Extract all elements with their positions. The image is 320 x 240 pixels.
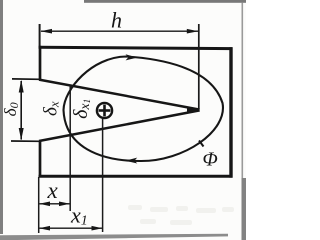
extension line x1 (below circle) — [102, 119, 104, 232]
svg-text:δx: δx — [41, 101, 62, 116]
scan border right thin — [242, 3, 244, 179]
wedge tip fill — [187, 108, 200, 113]
svg-text:Φ: Φ — [203, 149, 218, 171]
wedge gap bottom slant — [39, 110, 200, 141]
scan border top — [84, 0, 246, 3]
coil conductor circled plus — [97, 103, 112, 118]
x arrow left — [39, 202, 50, 207]
delta0 arrow head up — [19, 80, 24, 93]
core rectangle top edge — [39, 47, 233, 48]
flux arrow top (points right) — [126, 54, 138, 60]
delta0 arrow head down — [19, 128, 24, 140]
delta0 tick top — [12, 78, 40, 80]
label delta0 (rotated) — [1, 102, 21, 116]
delta0 tick bottom — [11, 140, 40, 142]
ghost bleed-through marks — [128, 205, 234, 225]
extension line left (below rectangle corner) — [38, 177, 40, 233]
core rectangle right edge — [229, 47, 232, 177]
svg-text:δ0: δ0 — [1, 102, 21, 116]
x1 arrow left — [39, 226, 50, 231]
label delta-x1 (rotated) — [70, 99, 93, 119]
scan border bottom — [0, 234, 228, 240]
scan border right wide — [242, 178, 247, 240]
wedge gap top slant — [39, 80, 200, 110]
svg-text:x: x — [47, 178, 59, 203]
svg-text:h: h — [111, 8, 122, 33]
h dimension arrow left — [40, 29, 52, 34]
x arrow right — [59, 202, 70, 207]
h dimension line — [41, 30, 198, 32]
core rectangle left edge lower — [39, 141, 42, 177]
flux arrow bottom (points left) — [125, 158, 137, 164]
x dimension line — [40, 203, 70, 205]
extension line x (at gap position x) — [69, 85, 71, 211]
core rectangle left edge upper — [39, 46, 42, 80]
svg-text:x1: x1 — [70, 203, 88, 229]
label delta-x (rotated) — [41, 101, 62, 116]
h dimension arrow right — [187, 29, 199, 34]
flux loop oval — [64, 57, 223, 162]
x1 arrow right — [92, 226, 103, 231]
h dimension extension line left — [39, 24, 41, 46]
core rectangle bottom edge — [39, 175, 233, 178]
x1 dimension line — [40, 227, 103, 229]
tick toward phi label — [199, 141, 204, 147]
svg-text:δx1: δx1 — [70, 99, 93, 119]
h dimension extension line right — [198, 24, 200, 109]
scan border left — [0, 0, 3, 234]
delta0 arrow line — [20, 81, 22, 140]
